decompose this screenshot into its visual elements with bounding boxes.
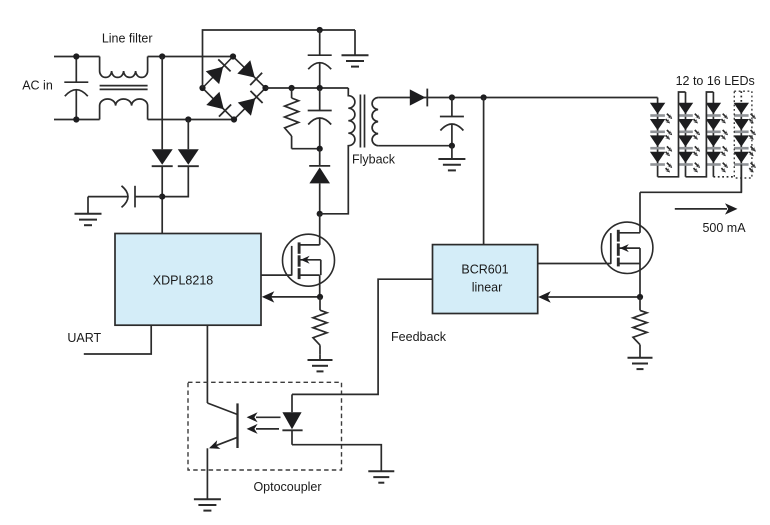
wire secondary bottom (378, 145, 452, 147)
wire bridge to top rail (203, 30, 356, 88)
wire Q2 sense arrow (538, 291, 640, 302)
opto arrow 1 (247, 412, 281, 422)
svg-text:500 mA: 500 mA (702, 221, 746, 235)
node bottom AC tap (185, 116, 191, 122)
wire bridge right to primary (266, 87, 349, 89)
ground opto emitter (194, 498, 221, 511)
bridge diode top-right (237, 60, 262, 85)
wire LED jumper 1 (658, 92, 686, 177)
LED opto emitter diode (282, 394, 381, 471)
svg-text:XDPL8218: XDPL8218 (153, 273, 214, 287)
node AC bottom junction (73, 116, 79, 122)
label AC in (22, 79, 53, 93)
bridge rectifier outline (203, 57, 266, 120)
label Line filter (102, 32, 153, 46)
wire XDPL to optocoupler (206, 325, 208, 403)
node bridge top (230, 53, 236, 59)
wire AC bottom (54, 119, 100, 121)
label BCR601 (461, 263, 508, 277)
inductor L1 top winding (100, 57, 148, 78)
node snubber R tap (289, 85, 295, 91)
resistor R1 snubber (285, 88, 320, 149)
label XDPL8218 (153, 273, 214, 287)
node top rail junction (317, 27, 323, 33)
capacitor C4 output (440, 98, 464, 146)
ground opto LED (368, 471, 394, 483)
diode D3 snubber (309, 149, 330, 214)
wire rail to BCR601 (483, 98, 485, 245)
wire XDPL gate to Q1 (261, 274, 292, 276)
inductor L1 core (100, 86, 148, 90)
wire UART (84, 325, 151, 354)
transformer T1 secondary winding (372, 98, 378, 146)
node BCR supply tap (481, 94, 487, 100)
ground secondary (438, 146, 465, 171)
svg-text:UART: UART (67, 331, 101, 345)
node top AC tap (159, 53, 165, 59)
ground top rail (342, 30, 369, 67)
IC U1 XDPL8218 (115, 234, 261, 326)
wire LED column4 stub dotted (740, 91, 742, 103)
node Q2 source junction (637, 294, 643, 300)
wire LED jumper 2 (686, 92, 714, 177)
LED string column 2 (678, 92, 700, 177)
wire BCR gate to Q2 (538, 263, 611, 265)
ground R2 (308, 354, 333, 371)
wire Q1 source (319, 275, 321, 297)
svg-text:Flyback: Flyback (352, 153, 396, 167)
svg-text:AC in: AC in (22, 79, 53, 93)
svg-text:Line filter: Line filter (102, 32, 153, 46)
bridge diode left-bottom (206, 92, 231, 117)
node AC top junction (73, 53, 79, 59)
bridge diode left-top (206, 59, 231, 84)
label Optocoupler (253, 480, 321, 494)
transformer T1 core (360, 95, 364, 148)
transformer T1 primary winding (320, 88, 355, 214)
svg-text:12 to 16 LEDs: 12 to 16 LEDs (676, 74, 755, 88)
transistor Q1 MOSFET (283, 234, 335, 286)
svg-text:Feedback: Feedback (391, 330, 447, 344)
wire feedback (292, 279, 433, 394)
capacitor C5 (88, 186, 162, 208)
label Feedback (391, 330, 447, 344)
node snubber C tap (317, 85, 323, 91)
transistor opto phototransistor (207, 403, 237, 498)
transistor Q2 MOSFET (602, 222, 653, 273)
diode D1 (152, 57, 173, 167)
optional LED column box (734, 91, 752, 178)
LED string column 1 (650, 98, 672, 177)
wire input to XDPL8218 (161, 166, 163, 233)
wire choke bottom to bridge (148, 119, 234, 121)
label linear (472, 280, 503, 294)
node bridge right (262, 85, 268, 91)
wire AC top (54, 56, 100, 58)
svg-text:BCR601: BCR601 (461, 263, 508, 277)
wire Q2 source (639, 264, 641, 298)
label 500 mA (702, 221, 746, 235)
node output cap bottom (449, 143, 455, 149)
wire secondary top rail (378, 97, 657, 99)
svg-text:linear: linear (472, 280, 503, 294)
current arrow 500 mA (675, 203, 738, 214)
node output cap top (449, 94, 455, 100)
optocoupler box (188, 382, 342, 470)
inductor L1 bottom winding (100, 99, 148, 120)
wire Q2 drain (639, 192, 641, 233)
ground C5 (75, 197, 102, 226)
opto arrow 2 (247, 424, 279, 434)
IC U2 BCR601 (433, 245, 538, 314)
wire Q1 sense arrow (262, 291, 320, 302)
diode D4 output (410, 89, 428, 107)
label UART (67, 331, 101, 345)
resistor R3 sense (633, 297, 647, 352)
LED string column 3 (706, 92, 728, 177)
capacitor C2 on top rail (308, 30, 332, 88)
ground R3 (628, 352, 653, 369)
node primary bottom junction (317, 211, 323, 217)
wire choke top to bridge (148, 56, 233, 58)
bridge diode bottom-right (238, 91, 263, 116)
label Flyback (352, 153, 396, 167)
node Q1 source junction (317, 294, 323, 300)
diode D2 (162, 120, 199, 197)
node snubber bottom (317, 146, 323, 152)
LED string column 4 (734, 103, 756, 193)
capacitor C1 across AC input (64, 57, 88, 120)
wire Q1 drain (319, 214, 321, 245)
wire LED string to Q2 drain (640, 165, 741, 193)
wire LED jumper 3 dotted (713, 176, 734, 178)
svg-text:Optocoupler: Optocoupler (253, 480, 321, 494)
node bridge left (199, 85, 205, 91)
label 12 to 16 LEDs (676, 74, 755, 88)
resistor R2 sense (313, 297, 327, 354)
node XDPL input junction (159, 194, 165, 200)
capacitor C3 snubber (308, 88, 332, 149)
node bridge bottom (231, 116, 237, 122)
